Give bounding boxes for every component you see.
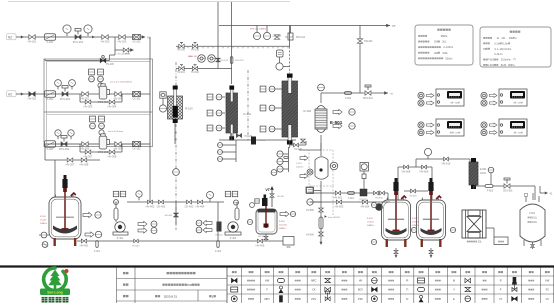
- svg-text:F-201: F-201: [47, 40, 54, 44]
- instruments R-103: [159, 92, 166, 112]
- valve HV-405: [256, 239, 265, 247]
- instrument F-602: [488, 167, 494, 184]
- svg-text:HV-607: HV-607: [409, 196, 417, 198]
- valve HV-304: [108, 100, 117, 109]
- dark valve HV-110: [251, 137, 266, 145]
- valve HV-103: [216, 58, 229, 62]
- gauge PI-103: [263, 32, 270, 39]
- filter F-401: [94, 241, 101, 253]
- valve HV-403: [165, 202, 179, 225]
- valve HV-411: [132, 239, 140, 247]
- reactor F-501: [49, 160, 81, 246]
- regulator PCV-201: [73, 29, 84, 45]
- valve HV-101: [177, 65, 185, 74]
- wire top edge artifact: [8, 1, 290, 3]
- label PSV note: [250, 28, 267, 31]
- instruments R-601B: [411, 227, 455, 232]
- valve HV-602: [374, 191, 385, 199]
- svg-text:HV-610: HV-610: [442, 162, 451, 166]
- valve HV-208: [80, 158, 89, 167]
- svg-text:BCV-001: BCV-001: [363, 97, 373, 100]
- label setpoint MFC-302: [108, 130, 124, 133]
- svg-text:HV: HV: [359, 280, 363, 283]
- gauge PI-301a: [55, 80, 62, 90]
- svg-text:0MPa: 0MPa: [441, 35, 448, 38]
- instrument cluster FIC-302: [90, 116, 105, 135]
- instruments R-601A: [371, 202, 376, 244]
- svg-text:8L/M: 8L/M: [501, 64, 507, 67]
- svg-text:HV-307: HV-307: [84, 155, 93, 159]
- svg-text:HV-303: HV-303: [84, 105, 93, 109]
- check valve CK-402: [185, 200, 194, 208]
- controller TIC-102: [481, 89, 527, 106]
- svg-text:V=10L: V=10L: [40, 220, 47, 222]
- spec table fixed-bed design: [415, 25, 473, 65]
- valve HV-305: [114, 92, 123, 101]
- sample V-501: [280, 211, 296, 216]
- label R-601B spec: [412, 218, 420, 227]
- valve HV-308: [108, 150, 117, 159]
- valve HV-108: [294, 139, 306, 151]
- svg-text:HV-606: HV-606: [306, 235, 314, 237]
- svg-text:VT: VT: [392, 24, 396, 28]
- svg-text:HV-101: HV-101: [177, 72, 185, 74]
- svg-text:E-601: E-601: [480, 168, 487, 171]
- sample P-402 b: [196, 227, 212, 233]
- check valve CK-401: [157, 200, 166, 208]
- svg-text:HV-407: HV-407: [277, 196, 285, 198]
- relief valve PSV-102: [288, 26, 306, 41]
- valve HV-307: [84, 150, 93, 159]
- wire R-101 bottom and cross line: [219, 133, 296, 162]
- svg-text:F-403: F-403: [279, 221, 285, 223]
- agitator M-601: [360, 163, 369, 189]
- gauge PI-201a: [63, 25, 71, 36]
- svg-text:CK-301: CK-301: [132, 98, 141, 101]
- svg-text:2020.8.31: 2020.8.31: [164, 295, 178, 299]
- wire N2 branch: [115, 37, 134, 56]
- gauge PI-302a: [55, 130, 61, 139]
- svg-text:HV-206(: HV-206(: [118, 54, 126, 56]
- svg-text:R-101: R-101: [244, 112, 252, 116]
- valve KW-001: [357, 39, 373, 43]
- svg-text:HV-605: HV-605: [306, 210, 314, 212]
- pneumatic valve dark: [375, 203, 383, 211]
- svg-text:PCV-301: PCV-301: [60, 97, 71, 101]
- column R-101: [226, 86, 252, 141]
- svg-text:CK-402: CK-402: [185, 205, 194, 209]
- instruments R-101 c: [207, 125, 225, 131]
- svg-text:0~5L/m: 0~5L/m: [494, 53, 502, 56]
- valve HV-404: [196, 200, 205, 208]
- title block top border: [0, 265, 554, 267]
- filter F-601: [348, 192, 355, 200]
- sample P-401 b: [138, 228, 157, 234]
- label setpoint MFC-301: [110, 81, 133, 84]
- sample point E-501 a: [333, 109, 355, 115]
- wire V-501 drain: [264, 234, 268, 241]
- svg-text:CK-401: CK-401: [157, 205, 166, 209]
- sample F-501 b: [85, 231, 102, 237]
- wire battery limit dashline: [175, 62, 177, 230]
- valve HV-104: [236, 134, 252, 139]
- svg-text:F-402: F-402: [215, 251, 222, 253]
- wire HV-404 drop: [217, 202, 219, 241]
- wire to E-501: [299, 135, 321, 150]
- node N2 feed: [7, 34, 137, 40]
- valve HV-402: [146, 200, 155, 208]
- gauge PI-201b: [84, 25, 92, 36]
- svg-text:PI: PI: [406, 280, 409, 283]
- svg-text:10MPa: 10MPa: [367, 225, 375, 227]
- svg-text:CV: CV: [546, 298, 550, 301]
- svg-text:316L: 316L: [442, 52, 448, 55]
- gauge PI-102: [253, 32, 260, 39]
- svg-text:V-401: V-401: [296, 163, 302, 165]
- wire H2 bypass: [80, 94, 122, 102]
- svg-text:10MPa: 10MPa: [412, 225, 420, 227]
- label HV-406: [258, 236, 266, 238]
- check valve CK-201: [132, 35, 141, 44]
- controller TIC-103: [418, 119, 464, 136]
- svg-text:PCV-201: PCV-201: [73, 40, 84, 44]
- valve HV-401: [80, 239, 89, 248]
- valve HV-207: [66, 158, 75, 167]
- instrument TI E-501: [318, 84, 325, 91]
- wire pump transfer line: [127, 201, 224, 203]
- svg-text:HV-106: HV-106: [191, 50, 199, 52]
- wire riser x150: [149, 37, 151, 202]
- wire purge drop: [45, 50, 115, 61]
- legend table: [227, 268, 554, 304]
- sample point E-501 b: [333, 123, 355, 129]
- gauge PI-301b: [69, 80, 76, 90]
- wire to sample pot: [266, 240, 283, 242]
- svg-text:HV-202: HV-202: [101, 40, 110, 44]
- valve HV-606: [306, 232, 323, 245]
- svg-text:HV-401: HV-401: [80, 244, 89, 248]
- svg-text:F-602: F-602: [412, 218, 418, 220]
- instrument and valve HV-605: [306, 188, 321, 213]
- svg-text:0.2m: 0.2m: [494, 42, 500, 45]
- svg-text:V=3.0L: V=3.0L: [412, 222, 420, 224]
- svg-text:F-501: F-501: [40, 216, 46, 218]
- filter F-201: [45, 34, 56, 44]
- filter F-001: [345, 92, 352, 100]
- svg-text:F-302: F-302: [47, 147, 54, 151]
- label HV-415: [215, 235, 223, 237]
- svg-text:20.0ml/m: 20.0ml/m: [501, 59, 511, 62]
- svg-text:500ml: 500ml: [446, 57, 453, 60]
- svg-text:VT: VT: [499, 298, 503, 301]
- svg-text:10MPa: 10MPa: [40, 223, 48, 225]
- svg-text:CK-302: CK-302: [132, 148, 141, 151]
- svg-text:N2: N2: [8, 36, 12, 40]
- filter F-605 drop: [319, 202, 341, 243]
- svg-text:HV-403: HV-403: [165, 215, 173, 217]
- svg-text:KW-001: KW-001: [364, 40, 373, 43]
- valve HV-202: [101, 35, 110, 44]
- valve HV-306: [81, 142, 90, 151]
- wire R header y68: [176, 68, 232, 70]
- svg-text:HV-608: HV-608: [402, 170, 411, 174]
- instrument F-501 drain: [42, 242, 48, 248]
- wire feed drop A: [387, 193, 389, 200]
- wire drain collection line: [77, 240, 266, 242]
- valve HV-105: [177, 43, 185, 52]
- instruments R-102 c: [260, 126, 282, 132]
- svg-text:E-501: E-501: [330, 120, 343, 125]
- wire R-102 bottom: [290, 141, 306, 148]
- filter F-602: [485, 185, 494, 193]
- svg-text:vt: vt: [391, 92, 393, 96]
- svg-text:R-102: R-102: [304, 109, 312, 113]
- svg-text:F-001: F-001: [345, 97, 352, 100]
- flow controller FC-601: [360, 189, 368, 202]
- wire gauge drops: [257, 26, 267, 33]
- valve HV-610: [442, 157, 451, 165]
- instrument V-501: [247, 219, 252, 224]
- svg-text:PCV-302: PCV-302: [59, 147, 70, 151]
- instrument PI-101: [198, 55, 206, 63]
- wire vent drops: [218, 2, 360, 93]
- label set pressure: [188, 56, 196, 59]
- filter F-302: [45, 141, 56, 151]
- svg-text:HV-402: HV-402: [146, 205, 155, 209]
- reactor R-601B: [417, 178, 446, 247]
- svg-text:HV-110: HV-110: [258, 140, 266, 142]
- pump P-401: [113, 191, 142, 240]
- tank V-601: [520, 193, 545, 249]
- svg-text:HV-103: HV-103: [221, 60, 229, 62]
- svg-text:from HV206: from HV206: [328, 216, 340, 219]
- svg-text:HV-102: HV-102: [191, 72, 199, 74]
- label V-501 spec: [279, 221, 288, 230]
- svg-text:V-601: V-601: [529, 212, 536, 215]
- drain R-601B: [429, 248, 433, 258]
- sample F-501 a: [83, 212, 101, 218]
- svg-text:MPV: MPV: [265, 298, 271, 301]
- svg-text:set at 0~5L/min: set at 0~5L/min: [108, 130, 124, 133]
- spacer: [0, 0, 1, 1]
- svg-text:R: R: [500, 280, 502, 283]
- vessel V-401: [296, 143, 333, 215]
- valve HV-301: [28, 92, 37, 101]
- drain R-601A: [394, 248, 398, 258]
- gauge PI-601: [424, 148, 431, 159]
- controller TIC-104: [481, 119, 527, 136]
- svg-text:HV-415: HV-415: [215, 235, 223, 237]
- svg-text:HV-205: HV-205: [106, 64, 114, 66]
- svg-text:0.1M: 0.1M: [192, 56, 197, 58]
- svg-text:V=3.0L: V=3.0L: [367, 222, 375, 224]
- svg-text:TI: TI: [406, 289, 408, 292]
- svg-text:HV-304: HV-304: [108, 105, 117, 109]
- sample pot: [283, 237, 294, 248]
- svg-text:HV-107: HV-107: [285, 37, 293, 39]
- svg-text:HV-604: HV-604: [361, 205, 370, 209]
- svg-text:CK-201: CK-201: [132, 41, 141, 44]
- wire battery limit dashline 2: [247, 70, 249, 140]
- instrument agitator box: [276, 50, 290, 70]
- wire feed header: [310, 192, 388, 194]
- wire reactor top header: [398, 166, 432, 168]
- svg-text:HV-203: HV-203: [118, 40, 127, 44]
- wire to E-601: [416, 159, 470, 162]
- svg-text:F-601: F-601: [488, 64, 495, 67]
- svg-text:Sen Long: Sen Long: [47, 291, 62, 295]
- control valve BCV-001: [363, 85, 373, 100]
- svg-text:2~100ml: 2~100ml: [443, 46, 453, 49]
- svg-text:10MPa: 10MPa: [509, 37, 518, 40]
- svg-text:FC: FC: [546, 289, 549, 292]
- enclosure gas cabinet (double wall): [44, 59, 153, 147]
- instrument column R-102 bottom: [271, 147, 288, 175]
- node H2 feed: [7, 91, 151, 97]
- instruments R-102 a: [260, 86, 282, 92]
- filter F-301: [45, 91, 56, 101]
- instruments R-102 b: [260, 105, 282, 111]
- valve HV-102: [191, 65, 199, 74]
- check valve CK-302: [132, 142, 141, 151]
- svg-text:HV-301: HV-301: [28, 97, 37, 101]
- svg-text:HV-107: HV-107: [273, 34, 282, 38]
- svg-text:P-401: P-401: [117, 237, 124, 240]
- svg-text:HV-602: HV-602: [375, 198, 383, 200]
- instrument y166: [330, 162, 338, 170]
- wire N2 outlet arrow: [92, 35, 151, 39]
- wire reactor drops: [398, 159, 432, 200]
- wire gas3 main: [44, 143, 150, 145]
- mass flow controller MFC-302: [98, 134, 110, 154]
- reactor V-501 small autoclave: [250, 186, 285, 234]
- condenser E-601: [469, 158, 487, 189]
- filter F-402 drain: [215, 241, 222, 253]
- svg-text:F-601: F-601: [367, 218, 373, 220]
- valve HV-201: [28, 35, 37, 44]
- svg-text:100L: 100L: [532, 221, 538, 224]
- svg-text:BCV-601: BCV-601: [503, 191, 513, 193]
- instrument cluster FIC-301: [89, 69, 104, 88]
- svg-text:CK: CK: [312, 289, 316, 292]
- svg-text:M: M: [453, 280, 455, 283]
- instruments R-101 a: [207, 94, 225, 100]
- spec table autoclave design: [480, 27, 551, 67]
- svg-text:F-602: F-602: [487, 191, 494, 193]
- control valve BCV-601: [503, 178, 513, 193]
- svg-text:PSV-101: PSV-101: [235, 60, 244, 62]
- instrument F-501 level: [39, 232, 49, 238]
- svg-text:H2: H2: [8, 93, 12, 97]
- reactor R-601A: [382, 178, 411, 247]
- svg-text:PCV: PCV: [311, 298, 316, 301]
- enclosure divider: [44, 112, 153, 115]
- svg-text:2000ml: 2000ml: [296, 167, 304, 169]
- wire vent header VT: [219, 24, 396, 28]
- svg-text:HV-601: HV-601: [334, 196, 343, 200]
- mass flow controller MFC-301: [98, 84, 110, 104]
- sample P-402 a: [196, 220, 212, 226]
- title table: [117, 268, 228, 304]
- controller TIC-101: [418, 89, 464, 106]
- svg-text:V=0.5/1L: V=0.5/1L: [279, 225, 288, 227]
- valve HV-302: [81, 92, 90, 101]
- valve HV-608: [402, 165, 411, 173]
- svg-text:HV-609: HV-609: [420, 170, 429, 174]
- svg-text:HV-308: HV-308: [108, 155, 117, 159]
- instrument TI-101: [208, 55, 216, 63]
- wire feed line 2: [310, 201, 390, 203]
- svg-text:set at 0.1~100.0ml/min: set at 0.1~100.0ml/min: [110, 81, 133, 84]
- svg-text:0MPa: 0MPa: [508, 64, 515, 67]
- svg-text:MFC: MFC: [311, 280, 316, 283]
- column R-103: [168, 86, 194, 124]
- valve HV-205: [100, 56, 114, 67]
- gauge PI-302b: [68, 130, 74, 139]
- valve HV-106: [191, 43, 199, 52]
- column R-102: [282, 74, 312, 145]
- valve HV-303: [84, 100, 93, 109]
- wire R-103 stubs: [174, 123, 176, 144]
- svg-text:F-601: F-601: [488, 59, 495, 62]
- wire to V-601: [479, 186, 553, 200]
- vacuum pump aux box: [486, 228, 508, 245]
- svg-text:HV-105: HV-105: [177, 50, 185, 52]
- svg-text:HV-201: HV-201: [28, 40, 37, 44]
- heat exchanger E-501: [315, 91, 393, 132]
- component x306: [306, 187, 313, 193]
- svg-text:2t/L: 2t/L: [442, 41, 447, 44]
- svg-text:HV-603: HV-603: [335, 205, 344, 209]
- valve HV-609: [420, 165, 429, 173]
- valve HV-604: [361, 200, 370, 209]
- logo Sen Long: [40, 268, 70, 303]
- valve HV-107: [273, 34, 294, 39]
- regulator PCV-302: [59, 136, 70, 152]
- instrument on boundary: [173, 169, 180, 176]
- svg-text:0.1~100.0ml/m: 0.1~100.0ml/m: [495, 48, 512, 51]
- label R-601A spec: [367, 218, 375, 227]
- svg-text:/0.3m: /0.3m: [502, 42, 508, 45]
- check valve CK-301: [132, 92, 141, 101]
- valve HV-607 jumper: [404, 189, 428, 197]
- svg-text:316L: 316L: [532, 217, 538, 220]
- svg-text:PSV set 1.0MPa: PSV set 1.0MPa: [250, 28, 267, 31]
- svg-text:HV-404: HV-404: [196, 205, 205, 209]
- relief valve PSV-101: [230, 57, 244, 64]
- svg-text:HV-207: HV-207: [66, 163, 75, 167]
- instruments R-101 b: [207, 110, 225, 116]
- svg-text:VT: VT: [265, 188, 270, 192]
- svg-text:P-402: P-402: [230, 237, 237, 240]
- svg-text:PSV: PSV: [358, 298, 363, 301]
- svg-text:10MPa: 10MPa: [279, 228, 286, 230]
- svg-text:F-401: F-401: [94, 251, 101, 253]
- wire gas3 bypass: [80, 144, 122, 152]
- label F-501 spec: [40, 216, 48, 225]
- svg-text:FI: FI: [406, 298, 408, 301]
- valve HV-601: [334, 191, 343, 200]
- svg-text:R-103: R-103: [185, 107, 193, 111]
- svg-text:BCV: BCV: [358, 289, 363, 292]
- svg-text:HV-411: HV-411: [132, 246, 140, 248]
- valve HV-203: [118, 35, 127, 44]
- svg-text:HV-208: HV-208: [80, 163, 89, 167]
- valve HV-309: [114, 142, 123, 151]
- instruments R-101 bottom: [218, 143, 237, 162]
- sample P-401 a: [138, 221, 157, 227]
- pump P-402: [207, 191, 242, 240]
